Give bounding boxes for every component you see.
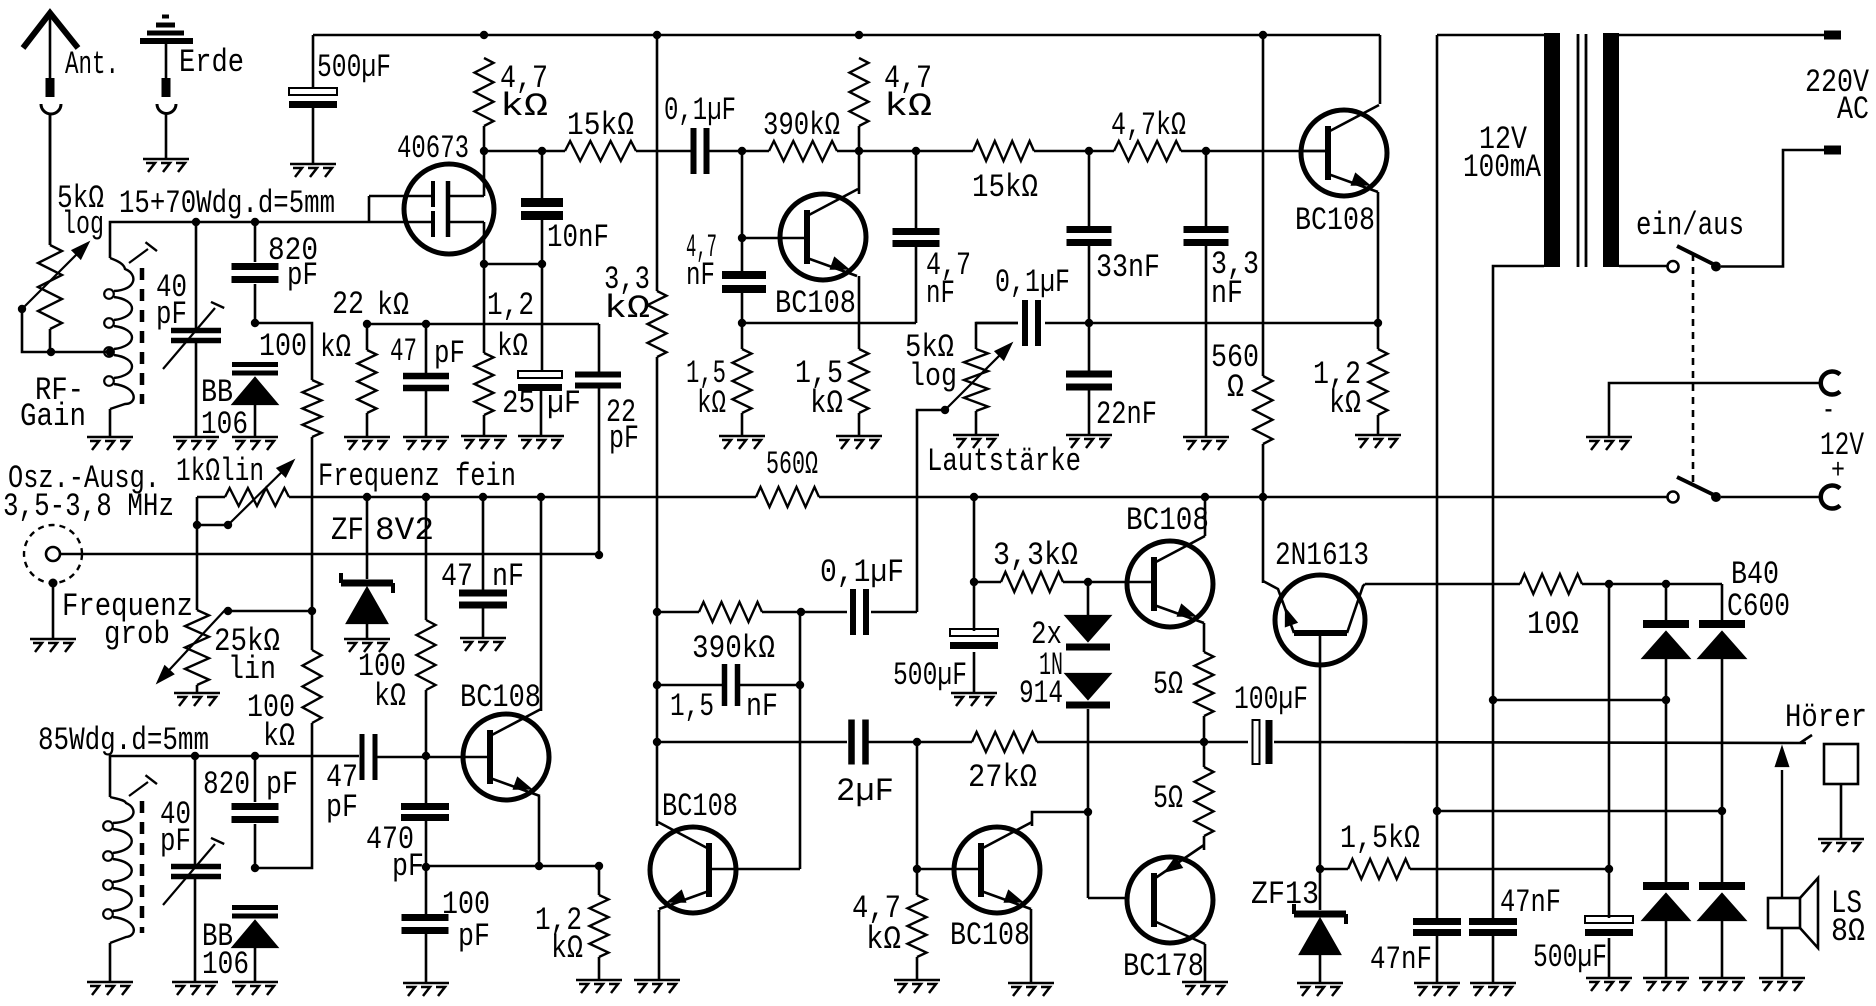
node 390k right: [797, 608, 805, 616]
diode bridge TR: [1699, 620, 1745, 628]
svg-text:nF: nF: [746, 688, 778, 725]
wire secondary bottom: [1493, 266, 1544, 918]
wire source to 1.2k: [483, 264, 486, 353]
wire drv collector: [656, 820, 659, 826]
svg-text:BC108: BC108: [775, 285, 856, 322]
node 390k left: [653, 608, 661, 616]
node grob wiper: [224, 607, 232, 615]
trimmer capacitor 40pF: [171, 328, 221, 334]
wire diode string down: [1087, 582, 1090, 616]
wire emitter row osc: [426, 865, 599, 868]
diode bridge BR: [1699, 882, 1745, 890]
svg-text:Ant.: Ant.: [65, 46, 119, 83]
ground under 1.2k: [461, 436, 507, 449]
wire emitter TR: [1377, 192, 1380, 323]
svg-text:33nF: 33nF: [1096, 249, 1160, 286]
resistor 1.2kOhm (source): [475, 353, 494, 415]
ground under 1.5k b: [836, 436, 882, 449]
resistor 560Ohm (h): [756, 487, 819, 507]
svg-text:pF: pF: [609, 420, 639, 457]
capacitor 47nF (line1): [1413, 918, 1461, 925]
svg-text:100mA: 100mA: [1463, 149, 1542, 186]
svg-text:106: 106: [201, 406, 248, 443]
svg-text:1,5kΩ: 1,5kΩ: [1340, 820, 1420, 857]
wire 560 column: [1262, 35, 1265, 376]
diode bridge BL: [1643, 882, 1689, 890]
svg-text:kΩ: kΩ: [263, 718, 295, 755]
capacitor 25uF electrolytic: [518, 371, 562, 378]
wire 22pF corner: [598, 324, 601, 555]
wire source: [483, 222, 486, 264]
ground under BB106-2: [232, 982, 278, 995]
core dashed line: [140, 268, 145, 404]
svg-text:0,1µF: 0,1µF: [664, 92, 736, 129]
node drain: [480, 147, 488, 155]
svg-text:kΩ: kΩ: [320, 329, 351, 366]
wire ac input 1: [1493, 699, 1666, 702]
wire 390k to 4.7nF node: [837, 150, 916, 153]
ground under 1.5k a: [719, 436, 765, 449]
speaker arrow: [1781, 770, 1783, 898]
diode 1N914 (2): [1066, 674, 1110, 699]
node tank2-fein: [422, 752, 430, 760]
wire gate1 branch: [368, 196, 371, 222]
wire 10nF bottom: [541, 220, 544, 264]
ground under 500uF3: [1586, 978, 1632, 991]
svg-text:Lautstärke: Lautstärke: [927, 443, 1081, 480]
resistor 10Ohm: [1520, 574, 1582, 594]
resistor 3.3kOhm (2): [1001, 572, 1063, 592]
svg-text:5Ω: 5Ω: [1153, 666, 1183, 703]
resistor 100kOhm (varactor feed top): [303, 380, 322, 437]
wire secondary top: [1437, 34, 1544, 37]
node source-10nF: [538, 260, 546, 268]
node collector mid: [855, 147, 863, 155]
resistor 4.7kOhm (4): [908, 895, 927, 957]
capacitor 0.1uF coupling: [691, 128, 697, 174]
wire 100kb down: [255, 723, 312, 868]
wire out to 100uF: [1204, 741, 1248, 744]
svg-text:15+70Wdg.d=5mm: 15+70Wdg.d=5mm: [119, 185, 335, 222]
capacitor 22nF: [1066, 371, 1112, 378]
svg-text:10Ω: 10Ω: [1527, 606, 1579, 643]
ground under 25k: [174, 693, 220, 706]
capacitor 820pF: [232, 263, 279, 270]
wire ac input 2: [1437, 810, 1722, 813]
ground under 22k: [344, 437, 390, 450]
dual-gate MOSFET 40673: [404, 164, 494, 254]
wire 1.5n row: [657, 684, 723, 687]
wire 5ohm2 to pnp: [1203, 836, 1206, 850]
svg-text:lin: lin: [228, 651, 276, 688]
wire d2 emitter: [1030, 909, 1033, 983]
inductor antenna coil 15+70Wdg: [110, 258, 134, 409]
node 100k fein top: [422, 493, 430, 501]
node fb node: [1084, 808, 1092, 816]
ground under coil2: [87, 982, 133, 995]
transformer core: [1577, 34, 1580, 267]
capacitor 4.7nF (base): [722, 271, 766, 279]
svg-text:ZF13: ZF13: [1251, 876, 1319, 913]
wire d2 collector: [1032, 812, 1088, 826]
wire reg emitter rail: [1262, 497, 1265, 583]
node reg emitter rail: [1259, 493, 1267, 501]
svg-text:Ω: Ω: [1227, 369, 1244, 406]
svg-text:kΩ: kΩ: [604, 290, 650, 327]
svg-text:pF: pF: [160, 823, 191, 860]
wire 10ohm to bridge: [1582, 583, 1722, 586]
wire secondary left leg: [1436, 35, 1439, 918]
capacitor 500uF (2): [950, 629, 998, 636]
wire to 15k2: [916, 150, 973, 153]
node 4.7nF b: [912, 147, 920, 155]
wire switch to terminal2: [1721, 150, 1824, 267]
ground under volume pot: [953, 435, 999, 448]
svg-text:3,3kΩ: 3,3kΩ: [993, 537, 1078, 574]
wire speaker gnd: [1781, 928, 1784, 978]
node 2uF out: [913, 738, 921, 746]
svg-text:85Wdg.d=5mm: 85Wdg.d=5mm: [38, 722, 209, 759]
transformer secondary winding 12V: [1544, 33, 1560, 267]
node grob to 100k: [308, 607, 316, 615]
wire 390k row: [657, 611, 699, 614]
wire fein wiper link: [197, 524, 228, 527]
trimmer arrow 2: [163, 844, 215, 905]
svg-text:47: 47: [441, 558, 473, 595]
svg-text:15kΩ: 15kΩ: [972, 169, 1038, 206]
node bridge plus: [1662, 580, 1670, 588]
svg-text:12V: 12V: [1820, 427, 1865, 464]
wire osc collector: [540, 497, 543, 711]
capacitor 47pF (series): [360, 734, 365, 780]
svg-text:pF: pF: [392, 848, 424, 885]
wire 390k to 0.1uF: [762, 611, 847, 614]
capacitor 470pF: [401, 803, 449, 810]
svg-text:kΩ: kΩ: [500, 88, 548, 125]
wire zener gnd: [366, 623, 369, 639]
resistor 390kOhm: [769, 141, 837, 161]
wire zener stub: [366, 497, 369, 579]
wire to 4.7k3: [1089, 150, 1114, 153]
svg-text:27kΩ: 27kΩ: [968, 759, 1037, 796]
wiper arrow RF-Gain: [24, 246, 85, 307]
wire RF wiper to tap: [22, 309, 110, 352]
ground under Erde: [143, 159, 189, 172]
wire 2uF right: [866, 741, 972, 744]
wire wiper to 0.1uF2: [917, 410, 945, 612]
ground under speaker: [1759, 978, 1805, 991]
wire uo collector: [1204, 497, 1207, 536]
coil2 tap symbol: [129, 782, 148, 796]
capacitor 22pF feedback: [575, 372, 621, 378]
switch link dashed: [1692, 254, 1695, 487]
capacitor 47nF (fein): [459, 590, 507, 597]
node 3.3nF top: [1202, 147, 1210, 155]
svg-text:nF: nF: [926, 275, 955, 312]
transistor 2N1613 (regulator): [1275, 575, 1365, 665]
node 820pF tap: [251, 218, 259, 226]
node reg base bias: [1316, 865, 1324, 873]
antenna Ant. connector: [23, 13, 78, 48]
wire to BC108 base (top right): [1181, 150, 1328, 153]
wiper arrow fein: [230, 464, 290, 523]
resistor 27kOhm: [972, 732, 1037, 752]
svg-text:pF: pF: [156, 296, 187, 333]
svg-text:0,1µF: 0,1µF: [820, 554, 904, 591]
wire drv emitter: [658, 910, 661, 980]
ground under 40p2: [172, 982, 218, 995]
wire 820pF stub: [254, 222, 257, 323]
node fein wiper a: [193, 521, 201, 529]
svg-text:BC108: BC108: [460, 679, 541, 716]
svg-text:kΩ: kΩ: [866, 921, 901, 958]
wire emitter mid: [858, 276, 861, 349]
node base mid: [738, 234, 746, 242]
wire pot top corner: [976, 323, 1018, 349]
capacitor 47nF (line2): [1469, 918, 1517, 925]
wire drain: [483, 151, 486, 196]
wire bridge col2: [1721, 584, 1724, 978]
node emitter TR: [1374, 319, 1382, 327]
svg-text:pF: pF: [287, 257, 318, 294]
ground under connector: [30, 639, 76, 652]
ground under 100pF: [403, 983, 449, 996]
transistor BC108 (upper output): [1127, 541, 1213, 627]
wire coil to ground: [109, 409, 112, 437]
capacitor 820pF (2): [232, 803, 279, 810]
resistor 4.7kOhm (collector mid): [850, 58, 869, 126]
headphone Hoerer: [1824, 744, 1858, 784]
resistor 4.7kOhm (drain load): [475, 58, 494, 126]
ground under zener: [344, 639, 390, 652]
node 40p2 tap: [191, 752, 199, 760]
capacitor 0.1uF (volume): [1022, 300, 1028, 346]
ground under headphone: [1818, 839, 1864, 852]
wire source chain: [541, 264, 544, 370]
wire 3.3k from rail: [656, 35, 659, 291]
svg-text:2µF: 2µF: [836, 773, 894, 810]
wire 40pF stub: [195, 222, 198, 437]
wire 0.1uF to TR emitter: [1045, 322, 1378, 325]
ground under 47pF: [403, 437, 449, 450]
wire divider: [367, 323, 599, 326]
svg-text:Gain: Gain: [20, 398, 86, 435]
ground under 4.7k4: [894, 980, 940, 993]
node emitter bypass: [738, 319, 746, 327]
wire collector TR: [1379, 35, 1382, 104]
wire 15k to 0.1uF: [636, 150, 691, 153]
svg-text:4,7kΩ: 4,7kΩ: [1111, 107, 1186, 144]
node 820p2 tap: [251, 752, 259, 760]
wire 25uF to ground: [540, 389, 543, 436]
varactor diode BB106 (2): [232, 905, 278, 910]
transistor BC178 (lower output PNP): [1127, 857, 1213, 943]
svg-text:390kΩ: 390kΩ: [763, 107, 840, 144]
node 40pF tap: [192, 218, 200, 226]
svg-text:15kΩ: 15kΩ: [567, 107, 634, 144]
varactor diode BB106: [232, 362, 278, 367]
svg-text:BC108: BC108: [1126, 502, 1209, 539]
node ac1 a: [1489, 696, 1497, 704]
wire 15k2 to 33nF: [1034, 150, 1089, 153]
resistor 1.5kOhm (b): [850, 349, 869, 413]
ground under 25uF: [518, 436, 564, 449]
potentiometer 5kOhm log Lautstaerke: [964, 349, 988, 411]
capacitor 100pF: [402, 914, 449, 921]
node emitter-1k2: [595, 862, 603, 870]
wire tank2 top: [110, 756, 359, 797]
node rail-4k7b: [855, 31, 863, 39]
capacitor 2uF: [848, 720, 855, 765]
svg-text:kΩ: kΩ: [551, 930, 583, 967]
transistor BC108 (driver 2): [954, 827, 1040, 913]
wire fein bus: [197, 496, 1667, 499]
resistor 390kOhm (2): [699, 602, 762, 622]
svg-text:kΩ: kΩ: [497, 328, 528, 365]
diode 1N914 (1): [1066, 616, 1110, 641]
ground under 3.3nF: [1183, 437, 1229, 450]
node raw dc: [1605, 580, 1613, 588]
node 22k top: [363, 320, 371, 328]
svg-text:kΩ: kΩ: [374, 678, 406, 715]
svg-text:ein/aus: ein/aus: [1636, 207, 1744, 244]
node 500uF2 top: [970, 493, 978, 501]
ground under 40pF: [173, 437, 219, 450]
potentiometer 5kOhm log RF-Gain: [38, 245, 62, 329]
resistor 5Ohm (2): [1195, 767, 1214, 836]
svg-text:nF: nF: [1211, 275, 1243, 312]
wire 40p2 stub: [194, 756, 197, 982]
svg-text:22: 22: [332, 286, 364, 323]
node osc emitter: [535, 862, 543, 870]
node base feed: [738, 147, 746, 155]
resistor 22kOhm: [358, 350, 377, 413]
wire base stub mid: [742, 151, 807, 238]
node RF wiper tail: [18, 305, 26, 313]
svg-text:2N1613: 2N1613: [1275, 537, 1369, 574]
svg-text:390kΩ: 390kΩ: [692, 630, 775, 667]
wire bias node: [255, 323, 312, 380]
svg-text:kΩ: kΩ: [810, 385, 843, 422]
wire bridge col1: [1665, 584, 1668, 978]
svg-text:820: 820: [203, 766, 250, 803]
wire af out row: [976, 322, 1018, 325]
ground under drv emitter: [634, 980, 680, 993]
ground bridge col1: [1643, 978, 1689, 991]
resistor 4.7kOhm (3rd): [1114, 141, 1181, 161]
node output mid: [1200, 738, 1208, 746]
wire drv base: [709, 868, 800, 871]
wire 3.3k to base: [1063, 581, 1154, 584]
svg-text:kΩ: kΩ: [697, 385, 726, 422]
resistor 100kOhm (fein feed): [417, 620, 436, 690]
svg-text:Hörer: Hörer: [1785, 699, 1867, 736]
svg-text:47: 47: [390, 333, 417, 370]
svg-text:1,5: 1,5: [670, 688, 714, 725]
wire emitter row: [742, 322, 916, 325]
diode bridge TL: [1643, 620, 1689, 628]
wire dc switch out: [1721, 496, 1823, 499]
node drv out: [913, 865, 921, 873]
resistor 3.3kOhm: [648, 291, 667, 357]
svg-text:0,1µF: 0,1µF: [995, 264, 1070, 301]
wire 22k stub: [366, 324, 369, 350]
svg-text:100µF: 100µF: [1234, 681, 1308, 718]
wire 100uF right: [1274, 742, 1806, 743]
svg-text:log: log: [62, 206, 104, 243]
node bias2: [251, 864, 259, 872]
svg-text:47nF: 47nF: [1500, 884, 1561, 921]
wire 500uF3 column: [1608, 584, 1611, 978]
wire 5ohm junction: [1203, 716, 1206, 767]
wiper arrow 25k: [161, 609, 226, 679]
wire source to 10nF: [484, 263, 542, 266]
ground under 22nF: [1066, 435, 1112, 448]
wire collector mid: [858, 126, 861, 194]
node rail-4k7a: [480, 31, 488, 39]
resistor 1.2kOhm (emitter TR): [1369, 349, 1388, 415]
node uo collector: [1201, 493, 1209, 501]
svg-text:560Ω: 560Ω: [766, 446, 818, 483]
node pot bottom: [47, 348, 55, 356]
zener diode ZF 8V2: [341, 580, 393, 587]
svg-text:nF: nF: [492, 558, 524, 595]
svg-text:Erde: Erde: [179, 44, 244, 81]
wire 500uF to +12V rail: [312, 35, 315, 164]
trimmer capacitor 40pF (2): [171, 864, 221, 870]
connector 12V plus: [1821, 486, 1840, 509]
node fein wiper b: [224, 521, 232, 529]
wire Osz line: [60, 553, 599, 556]
node 22nF top: [1085, 319, 1093, 327]
wire 100k fein stub: [425, 497, 428, 620]
svg-text:914: 914: [1019, 675, 1063, 712]
wire tank top corner: [110, 222, 433, 258]
wire reg collector out: [1365, 583, 1520, 586]
wire 4.7k4 column: [916, 742, 919, 895]
capacitor 3.3nF: [1184, 226, 1229, 233]
wire 820p2 stub: [254, 756, 257, 868]
transistor BC108 (1st AF amp): [780, 194, 866, 280]
node rail-right: [1259, 31, 1267, 39]
svg-text:10nF: 10nF: [547, 219, 609, 256]
capacitor 47pF (bypass): [403, 373, 449, 380]
node ac1 b: [1662, 696, 1670, 704]
wire 500uF2 column: [973, 497, 976, 693]
svg-text:100: 100: [259, 328, 307, 365]
svg-text:BC108: BC108: [1295, 202, 1375, 239]
wire tank2 right: [375, 756, 490, 759]
svg-text:BC178: BC178: [1123, 948, 1204, 985]
svg-text:106: 106: [202, 946, 249, 983]
svg-text:kΩ: kΩ: [884, 88, 932, 125]
wire 47p stub: [425, 324, 428, 437]
node ac2 b: [1718, 807, 1726, 815]
wire 0.1uF to base node: [709, 150, 769, 153]
svg-text:pF: pF: [326, 789, 358, 826]
node coil tap: [106, 348, 114, 356]
svg-text:40673: 40673: [397, 130, 469, 167]
transformer primary winding 220V: [1603, 33, 1619, 267]
node 3.3k left: [970, 578, 978, 586]
transistor BC108 (oscillator): [463, 714, 549, 800]
wire primary top: [1619, 34, 1824, 37]
svg-text:Frequenz fein: Frequenz fein: [318, 458, 516, 495]
svg-text:BC108: BC108: [662, 788, 738, 825]
coil tap symbol: [129, 249, 148, 263]
wiper arrow volume: [947, 347, 1008, 408]
node ac2 a: [1433, 807, 1441, 815]
